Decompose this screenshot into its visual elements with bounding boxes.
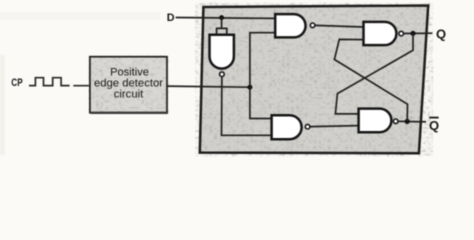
wire: cross-coupling from Q to G4 upper input — [335, 33, 413, 114]
wire: G1 output to G3 upper input — [315, 25, 363, 27]
wire: G2 output to G4 lower input — [310, 126, 358, 127]
inverter U1 output bubble — [220, 72, 225, 77]
svg-text:Q: Q — [429, 118, 439, 133]
node: CP' junction dot — [247, 85, 252, 90]
svg-text:D: D — [167, 12, 175, 24]
inverter U1 (NAND as inverter, pointing down) — [210, 35, 234, 69]
wire: CP lead into edge detector box — [73, 85, 90, 87]
CP input label — [11, 77, 22, 89]
G3 output bubble — [399, 31, 404, 36]
positive edge detector circuit block — [90, 57, 168, 113]
node: D junction dot — [219, 15, 224, 20]
wire: G4 output to Q-bar terminal — [398, 120, 426, 123]
NAND gate G4 (bottom right, Q-bar) — [359, 109, 392, 133]
G1 output bubble — [310, 23, 315, 28]
G2 output bubble — [305, 124, 310, 129]
wire: CP' riser up to G1 lower input — [250, 33, 275, 87]
Q-bar output label — [429, 118, 439, 133]
NAND gate G2 (bottom left) — [272, 115, 302, 139]
D input label — [167, 12, 175, 24]
CP clock waveform symbol — [29, 78, 70, 86]
wire: cross-coupling from Q-bar to G3 lower input — [334, 39, 407, 121]
Q output label — [436, 27, 446, 42]
node: Q output junction dot — [410, 31, 415, 36]
wire: stub from D dot to inverter input bar — [221, 18, 223, 29]
scan background — [0, 0, 474, 163]
svg-text:Q: Q — [436, 27, 446, 42]
wire: CP' from edge detector into block to junction — [167, 86, 250, 87]
NAND gate G3 (top right, Q) — [364, 22, 397, 45]
wire: CP' drop down to G2 upper input — [250, 87, 272, 118]
svg-text:CP: CP — [11, 77, 22, 89]
wire: G3 output to Q terminal — [404, 32, 433, 34]
NAND gate G1 (top left) — [275, 14, 305, 37]
node: Q-bar output junction dot — [405, 119, 410, 124]
svg-text:circuit: circuit — [114, 89, 144, 101]
wire: inverter output (D-bar) down and right to G2 lower input — [222, 77, 272, 136]
wire: inverter tied-input bar and two input stubs — [217, 28, 227, 34]
G4 output bubble — [393, 119, 398, 124]
flip-flop outer block (gray shaded box) — [200, 6, 428, 154]
wire: D input line — [176, 17, 276, 20]
